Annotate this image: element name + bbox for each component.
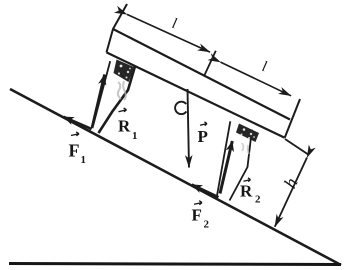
ground line — [9, 264, 341, 265]
svg-text:2: 2 — [255, 194, 261, 206]
reaction arrow R2 — [220, 141, 232, 194]
right leg right edge — [230, 130, 252, 201]
centre of gravity C — [175, 102, 186, 114]
svg-text:2: 2 — [204, 219, 210, 231]
friction arrow F2 — [192, 185, 219, 198]
plank left edge with extension line — [107, 4, 128, 52]
dimension line l left — [127, 14, 210, 52]
plank bottom edge — [107, 52, 285, 137]
left leg attachment hatch — [114, 60, 135, 83]
weight arrow P from C — [188, 89, 190, 168]
svg-text:P: P — [198, 127, 208, 146]
plank top edge — [113, 29, 290, 120]
dimension line l right — [221, 62, 292, 96]
middle tick extension — [204, 51, 216, 76]
svg-text:F: F — [69, 141, 80, 161]
svg-text:1: 1 — [81, 154, 87, 166]
right leg left edge — [216, 121, 230, 199]
right leg attachment hatch — [236, 124, 259, 143]
svg-text:1: 1 — [132, 130, 138, 142]
dimension line h — [275, 158, 307, 227]
svg-text:R: R — [118, 117, 131, 136]
left leg left edge — [90, 61, 110, 130]
smudge below right hatch — [242, 143, 249, 154]
label R1 vector hat — [119, 108, 127, 112]
reaction arrow R1 — [92, 75, 105, 129]
incline surface line — [10, 89, 341, 265]
svg-text:R: R — [240, 182, 253, 201]
friction arrow F1 — [64, 117, 91, 129]
label R2 vector hat — [244, 178, 251, 182]
label F1 vector hat — [71, 132, 79, 136]
h extension line from plank corner — [285, 139, 309, 155]
svg-text:F: F — [192, 206, 202, 225]
smudge below left hatch — [118, 81, 126, 100]
label P vector hat — [200, 122, 207, 126]
plank right edge with extension line — [285, 99, 300, 138]
left leg right edge — [99, 66, 136, 133]
label F2 vector hat — [194, 201, 202, 205]
